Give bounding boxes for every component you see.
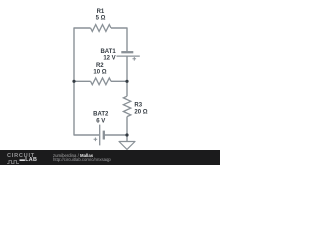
resistor R2 zigzag bbox=[91, 78, 111, 85]
svg-text:12 V: 12 V bbox=[103, 55, 115, 61]
svg-text:5 Ω: 5 Ω bbox=[96, 16, 106, 22]
footer credit line bbox=[53, 153, 93, 158]
wire R2 left lead bbox=[74, 80, 91, 82]
battery BAT2 short plate bbox=[103, 131, 105, 140]
svg-text:BAT2: BAT2 bbox=[93, 112, 109, 118]
wire R3 to bottom node and ground bbox=[126, 117, 128, 142]
resistor R1 zigzag bbox=[91, 25, 111, 32]
battery BAT1 plus sign bbox=[133, 57, 137, 61]
wire left side lower and bottom-left to BAT2 bbox=[74, 81, 99, 135]
resistor R3 zigzag bbox=[123, 96, 130, 116]
wire BAT1 to R3 through node bbox=[126, 56, 128, 96]
battery BAT1 long plate bbox=[117, 55, 140, 57]
svg-text:R3: R3 bbox=[134, 103, 142, 109]
svg-text:R1: R1 bbox=[97, 9, 105, 15]
ground symbol bbox=[119, 142, 135, 150]
svg-text:6 V: 6 V bbox=[96, 118, 105, 124]
battery BAT2 long plate bbox=[99, 125, 101, 146]
wire bottom from BAT2 to node bbox=[104, 134, 127, 136]
svg-text:10 Ω: 10 Ω bbox=[93, 69, 106, 75]
svg-text:R2: R2 bbox=[96, 63, 104, 69]
wire top-left from R1 to corner down left side bbox=[74, 28, 91, 81]
logo waveform bbox=[7, 159, 21, 165]
svg-text:BAT1: BAT1 bbox=[100, 49, 116, 55]
node junction dot R2 right bbox=[125, 80, 128, 83]
node junction dot bottom bbox=[125, 133, 128, 136]
battery BAT2 plus sign bbox=[94, 138, 98, 142]
battery BAT1 short plate bbox=[121, 51, 133, 53]
svg-text:20 Ω: 20 Ω bbox=[134, 110, 147, 116]
node junction dot R2 left bbox=[72, 80, 75, 83]
CircuitLab logo wordmark bbox=[7, 153, 35, 159]
wire R1 to top-right corner down to BAT1 bbox=[111, 28, 127, 51]
wire R2 right lead bbox=[111, 80, 127, 82]
CircuitLab logo LAB bbox=[20, 157, 38, 163]
footer bar bbox=[0, 150, 220, 165]
footer url line bbox=[53, 157, 111, 162]
